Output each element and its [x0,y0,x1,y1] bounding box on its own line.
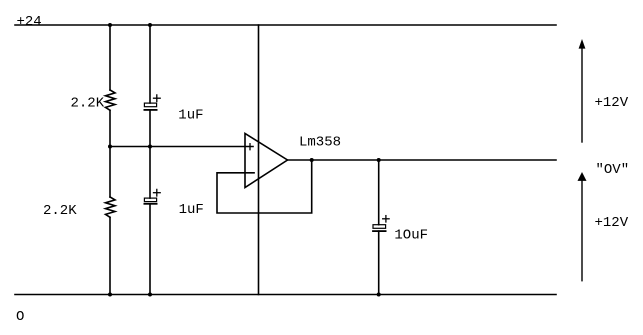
junction dot bottom rail at resistor branch [108,293,112,297]
svg-text:2.2K: 2.2K [71,96,105,112]
junction dot bottom rail at 10uF branch [377,293,381,297]
junction dot mid rail at resistor branch [108,145,112,149]
wire capacitor branch top segment [149,25,151,103]
wire top rail +24 [15,24,556,26]
wire 10uF branch bottom segment [378,231,380,294]
arrow lower +12V span [578,172,629,281]
wire resistor branch middle segment [109,110,111,146]
wire feedback loop output to inverting input [217,160,312,213]
svg-text:+12V: +12V [595,215,629,231]
wire capacitor branch bottom segment [149,204,151,295]
capacitor C1 1uF polarized [144,95,203,124]
wire resistor branch top segment [109,25,111,90]
svg-text:1uF: 1uF [178,108,203,124]
svg-text:Lm358: Lm358 [299,135,341,151]
op-amp U1 Lm358 [245,134,341,188]
wire resistor branch bottom segment [109,217,111,294]
wire op-amp supply line vertical [258,25,260,295]
resistor R1 2.2K [71,90,116,112]
wire bottom rail 0V [15,294,556,296]
junction dot mid rail at capacitor branch [148,145,152,149]
svg-text:O: O [16,309,24,325]
junction dot bottom rail at capacitor branch [148,293,152,297]
wire 10uF branch top segment [378,160,380,225]
wire divider midpoint rail to op-amp noninverting input [110,146,253,148]
svg-text:1uF: 1uF [179,202,204,218]
junction dot output at 10uF branch [377,158,381,162]
svg-text:2.2K: 2.2K [43,203,77,219]
resistor R2 2.2K [43,197,115,219]
capacitor C3 10uF polarized [373,216,428,244]
svg-text:1OuF: 1OuF [394,228,428,244]
svg-text:"OV": "OV" [596,162,630,178]
wire capacitor branch segment below mid rail [149,147,151,199]
wire output line [288,159,557,161]
wire capacitor branch middle segment [149,110,151,147]
capacitor C2 1uF polarized [144,189,203,218]
junction dot top rail at resistor branch [108,23,112,27]
arrow upper +12V span [579,39,629,142]
junction dot output at feedback tap [310,158,314,162]
junction dot top rail at capacitor branch [148,23,152,27]
svg-text:+12V: +12V [595,95,629,111]
wire resistor branch segment below mid rail [109,147,111,198]
svg-text:+24: +24 [17,14,42,30]
